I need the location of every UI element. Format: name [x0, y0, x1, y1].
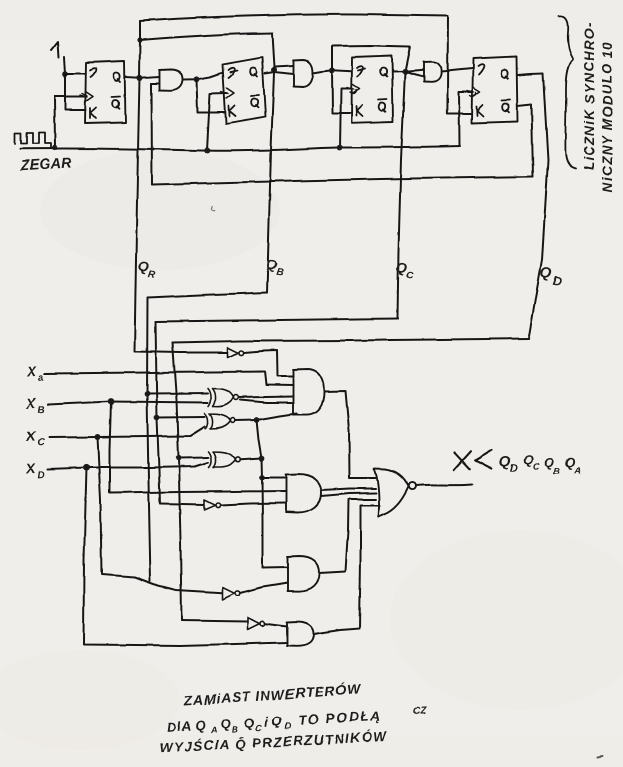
wire QD bus to inverter N4	[182, 621, 248, 622]
wire rail1 right drop to K of U4	[447, 16, 472, 114]
wire tie J2-K2	[197, 79, 226, 112]
wire QC bus lower vertical	[156, 322, 161, 505]
and-gate G7	[287, 622, 314, 646]
wire QD bus staircase left	[173, 339, 529, 343]
svg-text:DlA Q: DlA Q	[167, 717, 206, 734]
svg-text:A: A	[209, 725, 217, 735]
wire XC-dot drop to inverter N3	[98, 437, 223, 593]
wire G7 output to NOR in4	[314, 506, 380, 635]
svg-text:Q: Q	[220, 716, 231, 732]
and-gate G5	[286, 474, 322, 513]
pin Q1bar label	[112, 96, 121, 108]
label XC input	[25, 428, 46, 450]
svg-text:A: A	[574, 465, 582, 475]
node clock tap U3	[337, 145, 343, 151]
pin J1 label	[90, 68, 96, 77]
label QD bus	[538, 264, 564, 289]
wire G9 node up to G4 bottom	[257, 414, 298, 421]
svg-text:NiCZNY MODULO 10: NiCZNY MODULO 10	[600, 40, 615, 192]
wire lineA return to G1	[152, 177, 533, 185]
pin J3 label	[357, 66, 365, 77]
wire G9 out to node	[236, 419, 257, 422]
node G1 output junction	[194, 76, 200, 82]
xnor-gate G10	[208, 452, 241, 468]
pin clock wedge U2	[227, 89, 235, 99]
wire QA bus vertical	[135, 21, 141, 352]
svg-text:B: B	[231, 724, 239, 734]
wire QB bus vertical	[267, 73, 274, 293]
node QC tap to XNOR2	[154, 415, 160, 421]
wire Q2 to AND G2	[265, 73, 294, 75]
pin J4 label	[478, 64, 484, 74]
label XD input	[25, 460, 45, 482]
wire G2 output to J3	[313, 70, 352, 73]
svg-text:Q: Q	[544, 455, 555, 470]
wire G8 out to G4	[239, 397, 294, 403]
node clock tap U1	[52, 145, 58, 151]
wire to G5 in1	[262, 477, 287, 479]
pin K1 label	[90, 108, 96, 119]
and-gate G6	[288, 556, 320, 592]
svg-text:D: D	[37, 470, 45, 481]
nor-gate G11	[374, 469, 416, 517]
paper shading	[0, 0, 623, 40]
pin Q3bar label	[378, 99, 387, 111]
pin Q1 label	[113, 73, 120, 82]
svg-text:C: C	[37, 438, 46, 449]
wire Q3 to AND G3	[393, 70, 425, 72]
stray mark	[212, 206, 215, 210]
wire rail2 node into G2 upper	[274, 66, 294, 73]
wire to J1	[65, 73, 86, 75]
wire XB-dot drop to G5 in2	[110, 402, 287, 494]
wire QB tap to XNOR1	[147, 393, 208, 396]
node QB tap to XNOR1	[144, 391, 150, 397]
wire XA line	[45, 372, 294, 386]
node Q1 output junction	[137, 75, 143, 81]
svg-text:C: C	[533, 461, 540, 471]
node AND-B top input junction	[259, 475, 265, 481]
wire from 1 to J1	[64, 57, 65, 74]
xnor-gate G8 top	[208, 389, 238, 407]
node rail2 junction on QA bus	[137, 37, 142, 42]
label XA input	[26, 363, 45, 385]
node Q3 output junction	[402, 68, 408, 74]
label QC bus	[394, 259, 416, 282]
svg-text:B: B	[275, 267, 284, 279]
pin J2 label	[228, 68, 237, 78]
wire N4 out to G7 in1	[265, 624, 288, 627]
note line2	[167, 706, 428, 738]
xnor-gate G9 mid	[205, 414, 235, 429]
wire G4 output to NOR	[325, 391, 376, 478]
flip-flop U2 box	[223, 58, 266, 124]
wire XC line	[49, 427, 205, 438]
wire XB line	[48, 402, 208, 405]
node G2 output junction	[329, 68, 335, 74]
wire QC tap to XNOR2	[157, 416, 205, 419]
node QD tap to XNOR3	[176, 455, 182, 461]
node XB junction	[108, 398, 115, 405]
flip-flop U3 box	[352, 56, 394, 123]
wire QD bus vertical	[529, 74, 549, 339]
wire ZEGAR clock rail	[20, 146, 460, 151]
svg-text:LiCZNiK SYNCHRO-: LiCZNiK SYNCHRO-	[582, 22, 597, 170]
inverter N2	[205, 500, 221, 510]
stray dot bottom right	[598, 756, 603, 757]
wire G5 output doubled to NOR	[322, 489, 377, 497]
wire rail1 top feedback	[140, 14, 448, 21]
svg-text:C: C	[255, 722, 263, 732]
pin clock wedge U1	[86, 92, 94, 102]
svg-text:B: B	[554, 466, 561, 476]
wire rail2 drop to Q2 node	[272, 33, 274, 68]
svg-text:D: D	[510, 463, 518, 475]
and-gate G4 (4-input)	[293, 369, 325, 415]
wire G3 second stub	[405, 71, 425, 76]
wire N2 out to G5 in3	[221, 503, 287, 505]
wire G10 out joining bus	[241, 459, 262, 460]
wire QC bus staircase left	[156, 319, 398, 322]
wire Q4bar out	[518, 105, 534, 177]
wire NOR output	[417, 485, 473, 486]
label ZEGAR	[19, 155, 73, 174]
clock input wire U2	[207, 94, 227, 151]
label XB input	[25, 395, 45, 417]
svg-text:D: D	[284, 721, 292, 731]
and-gate G3	[424, 62, 442, 82]
inverter N3	[223, 588, 240, 600]
wire QA to inverter N1	[135, 352, 228, 353]
wire Q1 to AND G1	[126, 77, 160, 78]
wire cap over U3	[332, 46, 410, 72]
wire tie J1-K1	[65, 74, 86, 111]
node XD junction	[83, 464, 90, 471]
wire QC bus vertical	[398, 71, 406, 318]
svg-text:CZ: CZ	[412, 706, 427, 718]
wire G1 input2 from lineA	[152, 83, 160, 85]
svg-text:i Q: i Q	[264, 713, 282, 729]
inverter N4	[248, 618, 265, 630]
node J1 input junction	[62, 71, 68, 77]
and-gate G2	[294, 60, 314, 87]
clock square wave glyph	[15, 132, 51, 148]
node Q2 output junction	[271, 68, 277, 74]
flip-flop U4 box	[472, 57, 518, 124]
label output inequality	[454, 449, 582, 477]
node clock tap U2	[204, 148, 210, 154]
svg-text:Q: Q	[565, 455, 576, 470]
pin clock wedge U4	[473, 88, 481, 98]
svg-text:a: a	[38, 373, 45, 384]
clock input wire U1	[55, 97, 86, 148]
label QB bus	[264, 256, 285, 279]
wire G9 node down the share bus	[257, 420, 263, 568]
wire rail2	[140, 33, 272, 40]
svg-text:Q: Q	[244, 715, 255, 731]
pin clock wedge U3	[352, 84, 360, 94]
clock input wire U3	[340, 89, 352, 148]
pin Q2bar label	[251, 95, 260, 107]
wire Q4 out to QD bus	[518, 74, 544, 76]
clock input wire U4	[459, 92, 473, 146]
flip-flop U1 box	[85, 61, 126, 124]
wire tie J3-K3	[332, 71, 352, 114]
brace right	[559, 16, 576, 169]
note line3	[160, 729, 388, 756]
wire QB bus lower vertical	[147, 298, 151, 582]
pin K4 label	[477, 106, 484, 117]
wire XD line	[48, 463, 208, 470]
svg-text:ZEGAR: ZEGAR	[19, 155, 73, 174]
wire N1 out to G4	[244, 351, 294, 377]
svg-text:B: B	[37, 405, 45, 416]
node G10 out junction	[259, 456, 265, 462]
wire share bus to G6 in1	[263, 566, 289, 569]
and-gate G1	[159, 69, 183, 91]
note line1	[183, 680, 363, 709]
wire QC drop to inverter N2	[160, 504, 204, 505]
wire QB bus staircase left	[148, 293, 268, 298]
pin Q2 label	[250, 68, 257, 77]
node XC junction	[95, 434, 101, 440]
pin K3 label	[356, 106, 363, 117]
wire QD bus lower vertical	[173, 343, 182, 621]
wire lineA up to G1 input	[151, 84, 154, 185]
pin Q4bar label	[502, 100, 511, 112]
wire QD tap to XNOR3	[179, 457, 209, 460]
wire N3 out to G6 in2	[240, 583, 288, 593]
wire G3 output to J4	[442, 69, 472, 72]
svg-text:Q: Q	[523, 452, 534, 467]
input constant 1 label	[51, 42, 59, 58]
wire G1 output to J2	[183, 73, 223, 80]
inverter N1	[228, 348, 244, 358]
wire G6 output to NOR in3	[320, 500, 376, 574]
wire XD-dot outer loop to G7 in2	[84, 468, 288, 646]
pin Q4 label	[501, 70, 508, 79]
node G9 output junction	[254, 417, 260, 423]
pin K2 label	[229, 106, 236, 117]
pin Q3 label	[380, 68, 387, 77]
label QA bus	[136, 258, 158, 281]
